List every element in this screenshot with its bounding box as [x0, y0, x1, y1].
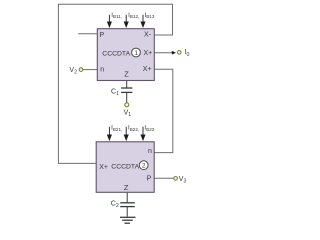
svg-text:Z: Z	[124, 183, 129, 192]
svg-text:2: 2	[142, 163, 146, 170]
svg-text:CCCDTA: CCCDTA	[111, 164, 139, 171]
svg-text:X+: X+	[143, 66, 152, 73]
svg-text:X-: X-	[144, 31, 152, 38]
svg-text:n: n	[148, 148, 152, 155]
svg-text:X+: X+	[144, 50, 153, 57]
svg-text:X+: X+	[99, 164, 108, 171]
svg-text:CCCDTA: CCCDTA	[102, 50, 130, 57]
svg-text:1: 1	[134, 50, 138, 57]
svg-text:n: n	[100, 66, 104, 73]
svg-text:P: P	[100, 32, 105, 39]
svg-text:Z: Z	[124, 70, 129, 79]
svg-text:P: P	[147, 176, 152, 183]
